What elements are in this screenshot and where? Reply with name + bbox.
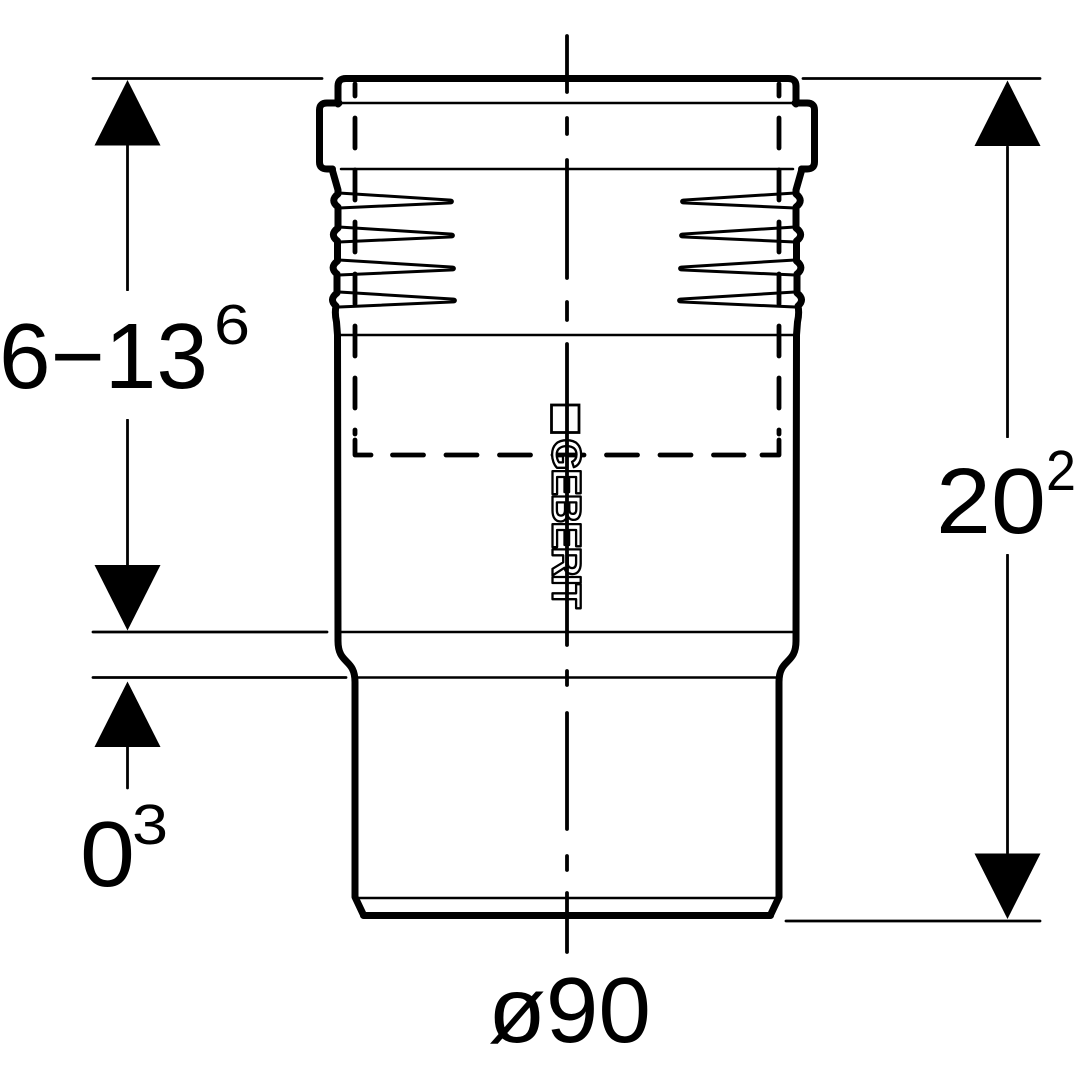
rib 3 left xyxy=(339,260,454,275)
hidden line left corner xyxy=(355,440,371,455)
chamfer line (y898) xyxy=(357,897,777,900)
arrowhead down (6-13 bottom) xyxy=(95,565,161,631)
arrowhead up (0) xyxy=(95,682,161,748)
collar right outline xyxy=(795,103,815,169)
hidden line horizontal (y455) xyxy=(393,453,745,458)
svg-text:6−13: 6−13 xyxy=(0,304,208,408)
arrowhead up (20 top) xyxy=(975,81,1041,147)
rib 1 left xyxy=(339,193,452,208)
arrowhead down (20 bottom) xyxy=(975,854,1041,920)
left body silhouette (ribbed edge, socket wall, taper, spigot, chamfer) xyxy=(332,169,364,915)
extension line top right xyxy=(803,77,1040,80)
rib 3 right xyxy=(680,260,795,275)
rib 4 left xyxy=(339,292,455,307)
centerline vertical (x567) xyxy=(565,36,569,952)
svg-text:ø90: ø90 xyxy=(488,958,651,1062)
hidden line left vertical (x355) xyxy=(353,84,358,434)
extension line bottom right (y921) xyxy=(786,920,1040,923)
extension line top left xyxy=(93,77,322,80)
rim/collar joint line (y103) xyxy=(341,102,793,105)
hidden line right vertical (x779) xyxy=(777,84,782,434)
right body silhouette xyxy=(771,169,803,915)
svg-text:2: 2 xyxy=(1046,439,1076,503)
rib 4 right xyxy=(679,292,795,307)
arrowhead up (6-13 top) xyxy=(95,80,161,146)
spigot top line (y677.5) xyxy=(353,676,781,679)
svg-text:6: 6 xyxy=(214,293,250,357)
bottom end edge xyxy=(364,912,771,919)
dimension line 20 shaft xyxy=(1006,147,1009,853)
mask for 20 text xyxy=(932,438,1080,554)
extension line mid left (y632) xyxy=(93,631,327,634)
collar left outline xyxy=(320,103,340,169)
svg-text:3: 3 xyxy=(132,793,168,857)
Geberit logo text (rotated) xyxy=(552,440,581,608)
dimension line 6-13 shaft xyxy=(126,145,129,565)
rib section bottom line (y335) xyxy=(337,334,797,337)
rib 2 right xyxy=(681,227,795,242)
extension line lower left (y677.5) xyxy=(93,676,346,679)
socket inner step line (y632) xyxy=(337,631,797,634)
socket rim outline xyxy=(338,79,796,105)
dimension line 0 shaft xyxy=(126,744,129,788)
collar bottom line (y169) xyxy=(341,168,793,171)
svg-text:20: 20 xyxy=(936,449,1046,553)
Geberit logo square xyxy=(552,405,580,433)
rib 2 left xyxy=(339,227,453,242)
mask for 6-13 text xyxy=(0,291,260,419)
svg-text:0: 0 xyxy=(80,802,135,906)
rib 1 right xyxy=(682,193,795,208)
hidden line right corner xyxy=(762,440,779,455)
